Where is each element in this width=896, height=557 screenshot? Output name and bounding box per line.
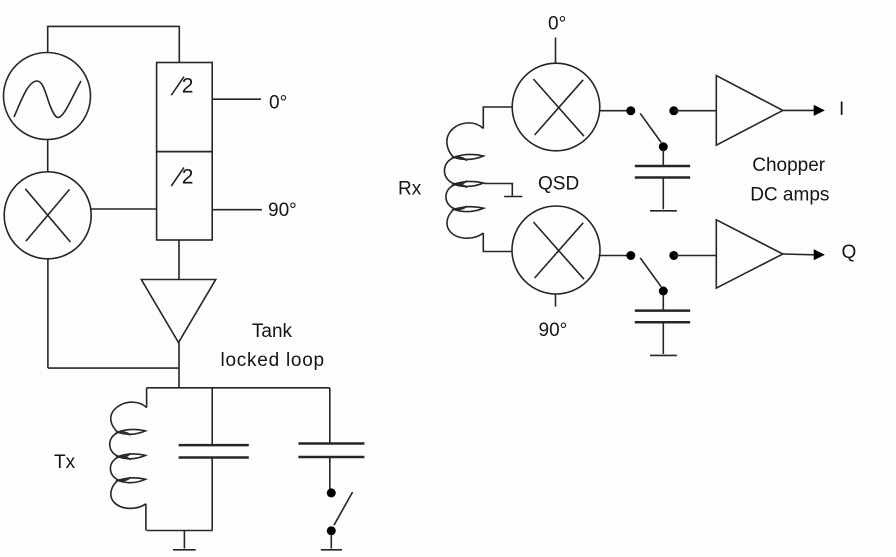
svg-text:2: 2 <box>182 75 194 98</box>
wire Rx coil to mixer M3 <box>483 233 512 252</box>
center tap ground bar <box>504 196 522 198</box>
wire mixer M3 to switch <box>599 255 632 257</box>
op-amp A3 triangle <box>716 220 783 288</box>
node dot S2 bottom <box>659 142 668 151</box>
svg-text:0°: 0° <box>548 14 566 35</box>
wire osc to mixer <box>47 140 49 173</box>
wire tank left bottom stub <box>145 504 147 531</box>
capacitor C4 plates <box>635 311 690 323</box>
inductor Tx coil loop 1 <box>110 432 131 457</box>
capacitor C3 bottom lead <box>662 178 664 210</box>
mixer M2 circle <box>512 63 600 151</box>
switch S1 arm <box>334 492 353 525</box>
switch S3 arm <box>640 258 661 287</box>
capacitor C1 bottom lead <box>211 458 213 531</box>
capacitor C4 top lead <box>662 295 664 311</box>
oscillator OSC circle <box>4 53 91 140</box>
node dot I input <box>626 106 635 115</box>
wire mixer M3 bottom stub <box>555 294 557 307</box>
capacitor C3 plates <box>635 166 690 178</box>
center tap wire <box>484 184 512 196</box>
wire osc top loop to divider <box>48 26 180 62</box>
svg-text:Tx: Tx <box>54 452 76 473</box>
arrow Q line <box>783 253 815 256</box>
wire to amplifier A2 <box>674 110 717 112</box>
mixer M3 circle <box>512 206 600 294</box>
ground bar tank <box>173 549 196 551</box>
node dot Q input <box>626 251 635 260</box>
svg-text:QSD: QSD <box>538 174 579 195</box>
inductor Rx coil loop 1 <box>444 157 467 184</box>
wire mixer M1 bottom <box>47 259 49 368</box>
ground stub switch <box>330 534 332 549</box>
op-amp A2 triangle <box>716 76 783 146</box>
divider U2 label /2 <box>171 168 184 187</box>
capacitor C1 plates <box>179 445 249 457</box>
svg-text:Tank: Tank <box>252 321 293 342</box>
wire feedback horizontal <box>48 367 179 369</box>
wire amp to tank <box>178 343 180 388</box>
wire 90 deg output <box>212 209 262 211</box>
inductor Tx leaf 3 <box>118 478 146 483</box>
mixer M1 X <box>25 189 70 242</box>
inductor Tx leaf 2 <box>118 454 146 459</box>
node dot I amp input <box>669 106 678 115</box>
switch S2 arm <box>640 113 661 142</box>
ground bar C4 <box>650 354 677 356</box>
svg-text:90°: 90° <box>268 200 297 221</box>
mixer M2 X <box>533 79 584 136</box>
svg-text:90°: 90° <box>539 320 568 341</box>
wire mixer M1 to divider <box>91 208 156 210</box>
inductor Tx leaf 1 <box>118 429 146 434</box>
capacitor C2 plates <box>298 444 364 458</box>
inductor Rx leaf 3 <box>454 207 484 212</box>
arrow I head <box>814 105 825 116</box>
wire mixer M2 to switch <box>600 110 632 112</box>
inductor Rx coil loop 2 <box>446 184 467 209</box>
capacitor C4 bottom lead <box>662 322 664 354</box>
wire 0 deg stub to mixer M2 <box>555 38 557 64</box>
wire mixer M2 to Rx coil <box>483 107 512 129</box>
svg-text:0°: 0° <box>269 92 287 113</box>
capacitor C1 top lead <box>211 388 213 445</box>
capacitor C2 bottom lead <box>329 457 331 489</box>
wire tank bottom <box>147 530 213 532</box>
svg-text:Chopper: Chopper <box>752 155 826 176</box>
svg-text:DC amps: DC amps <box>750 185 829 206</box>
svg-text:I: I <box>839 99 844 120</box>
inductor Rx coil top hook <box>447 123 483 157</box>
capacitor C2 top lead <box>329 388 331 444</box>
wire tank left top stub <box>146 388 148 408</box>
inductor Tx coil loop 2 <box>110 457 130 481</box>
inductor Rx leaf 2 <box>454 181 484 186</box>
wire divider to amplifier <box>178 240 180 280</box>
wire to amplifier A3 <box>674 255 717 257</box>
node dot Q amp input <box>669 251 678 260</box>
svg-text:2: 2 <box>182 166 194 189</box>
op-amp A1 triangle <box>141 280 215 343</box>
capacitor C3 top lead <box>662 150 664 166</box>
divider shared edge <box>157 151 213 153</box>
wire 0 deg output <box>212 98 261 100</box>
node dot S3 bottom <box>659 287 668 296</box>
mixer M1 circle <box>4 172 91 259</box>
switch S1 top contact dot <box>327 488 336 497</box>
arrow I line <box>783 109 815 111</box>
divider U2 /2 box <box>157 152 213 240</box>
divider U1 /2 box <box>157 63 213 152</box>
svg-text:Q: Q <box>842 242 857 263</box>
inductor Tx coil top hook <box>111 402 147 432</box>
svg-text:Rx: Rx <box>398 179 422 200</box>
ground stub tank <box>183 531 185 549</box>
switch S1 bottom contact dot <box>327 526 336 535</box>
mixer M3 X <box>533 222 584 279</box>
divider U1 label /2 <box>171 77 184 96</box>
ground bar C3 <box>650 210 677 212</box>
inductor Rx coil bottom hook <box>447 209 483 238</box>
svg-text:locked loop: locked loop <box>221 350 325 371</box>
inductor Tx coil bottom hook <box>111 481 146 509</box>
inductor Rx leaf 1 <box>454 154 484 159</box>
arrow Q head <box>814 249 825 260</box>
oscillator sine symbol <box>14 81 81 118</box>
wire tank top <box>147 387 330 389</box>
ground bar switch <box>321 549 342 551</box>
